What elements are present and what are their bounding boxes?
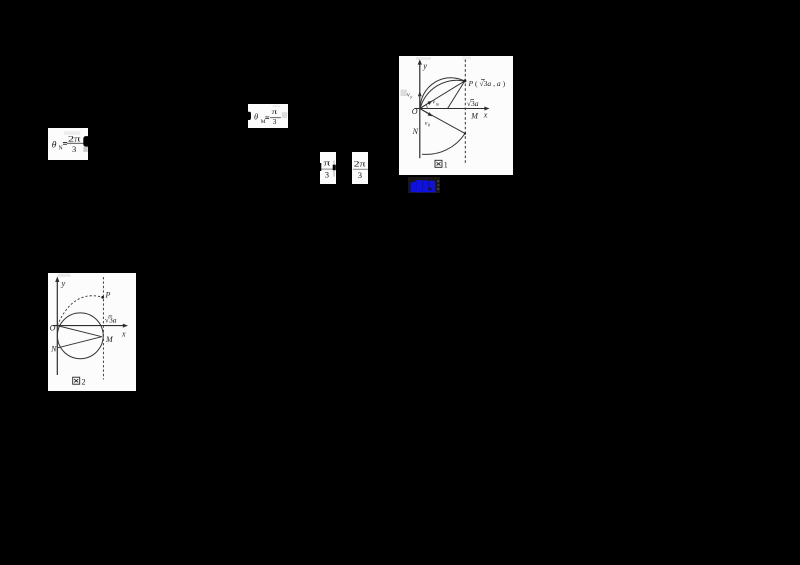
svg-text:P ( √3a , a ): P ( √3a , a ) [467, 78, 505, 87]
dashed vertical line [102, 277, 104, 380]
svg-text:π: π [323, 158, 331, 167]
black notch right edge [332, 164, 335, 169]
svg-text:θ: θ [51, 140, 56, 150]
svg-text:2π: 2π [67, 133, 80, 143]
angle arc at O [426, 104, 427, 108]
point P dot [463, 79, 466, 82]
x axis [414, 107, 486, 109]
fraction bar [353, 169, 368, 170]
svg-text:3: 3 [71, 144, 75, 154]
lower point dot [464, 132, 466, 134]
svg-text:x: x [121, 329, 126, 338]
fraction bar [321, 167, 333, 170]
scan smudges top [416, 57, 431, 60]
equals sign [265, 115, 269, 118]
figure 1 image [399, 56, 513, 175]
y axis arrowhead [418, 59, 422, 64]
faint scan smudge [272, 105, 280, 107]
y axis [419, 62, 421, 158]
point P dot [101, 295, 104, 298]
outer arc O to P [420, 77, 465, 108]
svg-text:√3a: √3a [104, 315, 116, 324]
y axis [56, 280, 58, 375]
caption glyph tu (figure) [435, 160, 442, 167]
svg-text:3: 3 [358, 170, 362, 180]
x axis arrowhead [484, 106, 489, 110]
scan smudge top [58, 273, 71, 277]
svg-text:θ: θ [253, 113, 257, 122]
svg-text:O: O [412, 106, 418, 115]
fraction bar [66, 142, 82, 145]
inner arc O to P [420, 80, 465, 108]
equation image C: pi/3 [320, 152, 336, 184]
lower chord O to lower point [420, 108, 465, 133]
y axis arrowhead [55, 276, 59, 282]
v0 arrow below x axis [420, 108, 430, 114]
gray square right [281, 112, 286, 118]
svg-text:2: 2 [81, 377, 85, 386]
svg-text:N: N [50, 344, 57, 353]
line P to x-axis foot [448, 80, 465, 108]
svg-text:3: 3 [325, 169, 329, 179]
line N to M [57, 336, 101, 347]
svg-text:1: 1 [444, 160, 448, 169]
svg-text:M: M [105, 335, 114, 344]
equation image D: 2pi/3 [352, 152, 368, 184]
svg-text:3: 3 [272, 117, 276, 126]
svg-text:O: O [49, 323, 55, 332]
svg-text:2π: 2π [354, 159, 366, 168]
svg-text:M: M [470, 111, 479, 120]
blue text mass char 2 [416, 180, 422, 192]
blue text mass char 4 [429, 180, 436, 191]
svg-text:M: M [260, 119, 265, 125]
svg-text:0: 0 [428, 122, 431, 127]
blue text mass char 3 [423, 180, 429, 192]
line O to M [57, 325, 102, 336]
blue hyperlink blob below figure 1 [408, 177, 440, 193]
equation image A: theta_N = 2pi/3 [48, 128, 89, 161]
fraction bar [270, 116, 281, 119]
dashed vertical line at sqrt(3)a [464, 59, 466, 162]
figure 2 image [48, 273, 136, 392]
svg-text:N: N [412, 126, 419, 135]
svg-text:√3a: √3a [467, 99, 479, 108]
svg-text:m: m [436, 101, 440, 106]
dashed trajectory curve O to P [57, 295, 102, 325]
faint scan smudge [63, 131, 79, 134]
black notch left edge [248, 112, 251, 120]
gray strip right of pi [333, 160, 335, 176]
x axis [52, 324, 124, 326]
black notch right edge [83, 136, 88, 147]
caption glyph tu (figure) [72, 377, 79, 384]
gray square lower right [83, 146, 87, 151]
blue underline run [411, 190, 436, 192]
lower arc [422, 133, 465, 154]
vy arrow on y axis [418, 91, 422, 96]
faint gray dots right [437, 180, 439, 182]
svg-text:P: P [104, 290, 110, 299]
equation image B: theta_M = pi/3 [248, 104, 289, 128]
vm velocity arrow [420, 102, 430, 108]
chord line O to P [420, 80, 465, 108]
equals sign [62, 141, 66, 144]
svg-text:y: y [60, 278, 65, 288]
svg-text:x: x [483, 110, 488, 119]
x axis arrowhead [122, 323, 127, 327]
svg-text:y: y [409, 94, 412, 99]
svg-text:y: y [422, 60, 427, 70]
circle through O and M [57, 312, 103, 358]
svg-text:N: N [58, 145, 63, 151]
svg-text:π: π [271, 107, 277, 116]
gray square behind vy label [400, 89, 406, 95]
black tick left edge [320, 163, 321, 171]
blue text mass char 1 [411, 181, 416, 192]
